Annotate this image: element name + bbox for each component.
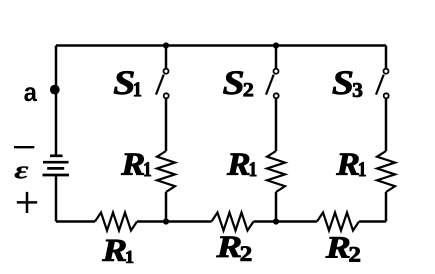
- wire stub branch 3 top: [385, 46, 388, 69]
- label R1 of bottom left resistor: [102, 240, 126, 261]
- battery EMF source plates: [43, 156, 70, 175]
- resistor R1 branch 3 vertical zigzag: [377, 151, 395, 192]
- label S1 subscript 1: [134, 82, 141, 96]
- wire branch 2 between switch and resistor: [275, 99, 278, 151]
- label S2: [223, 71, 243, 94]
- wire branch 3 lower: [385, 192, 388, 222]
- resistor R2 middle horizontal zigzag: [212, 213, 254, 231]
- label S3: [333, 71, 353, 94]
- switch S1 open knife switch: [156, 69, 169, 99]
- junction dot top of branch 2: [273, 42, 279, 48]
- label R2 of bottom right resistor: [326, 237, 350, 257]
- wire branch 1 lower: [165, 192, 168, 222]
- wire left rail lower: [55, 175, 58, 222]
- label minus battery negative terminal: [14, 146, 34, 148]
- label R1 of branch 2 resistor: [227, 154, 249, 175]
- label node a: [24, 87, 37, 101]
- subscript 1 of branch 3 R label: [359, 162, 365, 176]
- subscript 1 of branch 1 R label: [145, 162, 151, 176]
- label R2 of bottom middle resistor: [216, 237, 240, 257]
- resistor R1 branch 2 vertical zigzag: [267, 151, 285, 192]
- junction dot bottom of branch 1: [163, 218, 169, 224]
- subscript 1 of bottom left R label: [126, 251, 133, 263]
- wire bottom bus segment 4: [359, 220, 386, 223]
- label epsilon EMF value: [15, 166, 29, 178]
- node a dot: [50, 85, 60, 95]
- switch S3 open knife switch: [376, 69, 389, 99]
- wire branch 2 lower: [275, 192, 278, 222]
- subscript 2 of bottom middle R label: [241, 246, 252, 260]
- label S3 subscript 3: [353, 83, 362, 97]
- wire bottom bus segment 2: [137, 220, 212, 223]
- subscript 2 of bottom right R label: [349, 247, 360, 261]
- switch S2 open knife switch: [266, 69, 279, 99]
- resistor R2 right horizontal zigzag: [317, 213, 359, 231]
- wire stub branch 1 top: [165, 46, 168, 69]
- wire bottom bus segment 3: [254, 220, 318, 223]
- subscript 1 of branch 2 R label: [250, 162, 256, 176]
- resistor R1 branch 1 vertical zigzag: [157, 151, 175, 192]
- label S2 subscript 2: [244, 83, 253, 96]
- wire top bus: [56, 44, 386, 47]
- label S1: [114, 71, 134, 94]
- wire bottom bus segment 1: [56, 220, 95, 223]
- wire branch 1 between switch and resistor: [165, 99, 168, 151]
- resistor R1 bottom horizontal zigzag: [95, 213, 137, 231]
- wire left rail upper: [55, 46, 58, 157]
- wire stub branch 2 top: [275, 46, 278, 69]
- junction dot bottom of branch 2: [273, 218, 279, 224]
- label R1 of branch 3 resistor: [336, 154, 358, 175]
- junction dot top of branch 1: [163, 42, 169, 48]
- label plus battery positive terminal: [17, 192, 37, 213]
- wire branch 3 between switch and resistor: [385, 99, 388, 151]
- label R1 of branch 1 resistor: [121, 154, 144, 175]
